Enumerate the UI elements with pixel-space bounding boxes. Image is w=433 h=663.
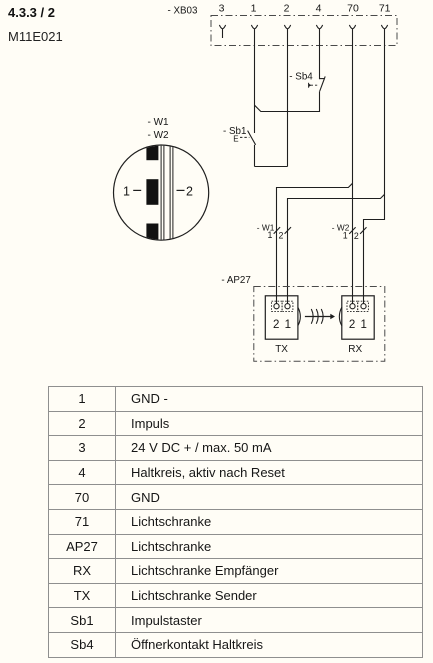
svg-text:- W1: - W1 [148, 117, 170, 128]
page header title [8, 5, 55, 20]
cable detail circle W1/W2 [114, 145, 209, 240]
terminal 70 socket symbol [349, 25, 355, 29]
terminal 1 socket symbol [251, 25, 257, 29]
TX pin dashed frame 2 [272, 301, 283, 311]
RX pin dashed frame 2 [347, 301, 358, 311]
svg-text:4: 4 [316, 2, 322, 14]
svg-text:TX: TX [275, 344, 288, 355]
page header drawing number [8, 29, 63, 44]
wire Sb1 to terminal 2 [255, 166, 288, 168]
wire branch terminal1 to Sb4 (holding circuit) [255, 91, 320, 111]
cable W2 conductor marker slash 1 [349, 227, 355, 234]
wire terminal 4 down to Sb4 [319, 29, 321, 79]
TX sender box [265, 296, 298, 339]
contact Sb4 lever [320, 76, 326, 91]
cable W1 conductor marker slash 1 [274, 227, 280, 234]
pointer dash for conductor 1 [133, 189, 141, 191]
svg-text:- AP27: - AP27 [221, 275, 250, 286]
TX pin 2 circle [274, 304, 279, 309]
RX lens [339, 307, 341, 326]
terminal strip XB03 dash-dot box [211, 16, 397, 46]
contact Sb4 NC seat tick [320, 78, 325, 80]
wire terminal 2 down to Sb1 output [287, 29, 289, 167]
conductor 1 striped insulation band [146, 144, 158, 161]
conductor 2 sheath line b [172, 144, 174, 242]
terminal 71 socket symbol [381, 25, 387, 29]
Sb4 manual actuator dashed link [311, 84, 319, 86]
svg-text:2: 2 [284, 2, 290, 14]
Sb4 actuator head bar [308, 83, 310, 88]
svg-text:1: 1 [285, 319, 291, 331]
svg-text:1: 1 [267, 230, 272, 240]
Sb1 actuator dashed link [240, 136, 249, 138]
conductor sheath line a [160, 144, 162, 242]
contact Sb1 lever (pushbutton NO) [248, 131, 256, 145]
svg-text:1: 1 [343, 230, 348, 240]
light barrier AP27 dash-dot box [254, 287, 385, 362]
RX pin dashed frame 1 [358, 301, 369, 311]
svg-text:RX: RX [348, 344, 362, 355]
TX pin dashed frame 1 [282, 301, 293, 311]
terminal 3 socket symbol [219, 25, 225, 38]
RX pin 2 circle [350, 304, 355, 309]
svg-text:- XB03: - XB03 [168, 5, 199, 16]
TX lens [298, 307, 300, 326]
svg-text:1: 1 [360, 319, 366, 331]
TX pin 1 circle [285, 304, 290, 309]
light beam arc 2 [316, 309, 318, 324]
svg-text:1: 1 [251, 2, 257, 14]
wire branch 71 to TX pin 1 [288, 194, 385, 303]
wire terminal 71 down with jog to RX pin 1 [364, 29, 385, 304]
svg-text:2: 2 [354, 231, 359, 241]
wire terminal 1 down to Sb1 [254, 29, 256, 133]
svg-text:- W2: - W2 [148, 130, 170, 141]
svg-text:2: 2 [273, 319, 279, 331]
svg-text:1: 1 [123, 185, 130, 199]
terminal 4 socket symbol [316, 25, 322, 29]
cable W2 conductor marker slash 2 [360, 227, 366, 234]
svg-text:71: 71 [379, 2, 391, 14]
pointer dash for conductor 2 [177, 189, 185, 191]
legend table [48, 386, 423, 658]
svg-text:2: 2 [186, 185, 193, 199]
terminal 2 socket symbol [284, 25, 290, 29]
svg-text:E: E [233, 135, 238, 144]
svg-text:2: 2 [278, 231, 283, 241]
wire branch 70 to TX pin 2 [277, 183, 353, 303]
light beam arc 1 [311, 309, 313, 324]
svg-text:2: 2 [349, 319, 355, 331]
Sb4 actuator arrowhead [309, 84, 312, 87]
svg-text:- Sb4: - Sb4 [289, 71, 313, 82]
conductor 2 sheath line a [169, 144, 171, 242]
light beam line [305, 316, 331, 318]
Sb1 bottom stub wire [254, 145, 256, 167]
conductor sheath line b [163, 144, 165, 242]
RX pin 1 circle [361, 304, 366, 309]
svg-text:3: 3 [219, 2, 225, 14]
wire terminal 70 down to RX pin 2 [352, 29, 354, 304]
RX receiver box [342, 296, 374, 339]
cable W1 conductor marker slash 2 [285, 227, 291, 234]
light beam arrowhead [330, 314, 335, 320]
svg-text:70: 70 [347, 2, 359, 14]
light beam arc 3 [321, 309, 323, 324]
